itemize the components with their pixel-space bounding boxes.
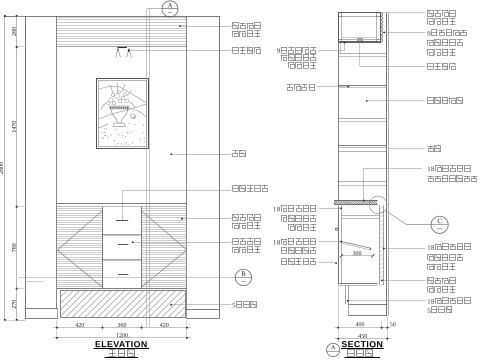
svg-text:400: 400 (355, 322, 364, 328)
svg-text:1470: 1470 (12, 121, 18, 133)
svg-text:C: C (437, 218, 442, 225)
svg-text:360: 360 (117, 323, 126, 329)
svg-text:420: 420 (75, 323, 84, 329)
svg-text:A: A (168, 2, 173, 9)
svg-text:ELEVATION: ELEVATION (95, 339, 148, 349)
svg-text:SECTION: SECTION (341, 339, 383, 349)
svg-text:50: 50 (390, 322, 396, 328)
svg-text:280: 280 (12, 27, 18, 36)
svg-text:A: A (331, 344, 336, 351)
svg-text:B: B (241, 271, 246, 278)
svg-text:300: 300 (352, 251, 361, 257)
svg-text:2800: 2800 (0, 162, 5, 174)
svg-text:780: 780 (12, 243, 18, 252)
svg-text:420: 420 (160, 323, 169, 329)
svg-text:270: 270 (12, 300, 18, 309)
